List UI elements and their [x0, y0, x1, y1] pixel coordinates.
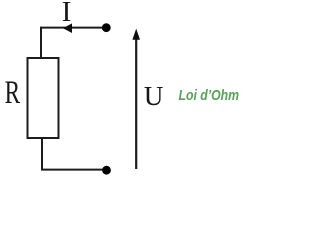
svg-text:U: U	[144, 81, 164, 111]
resistor R	[28, 58, 59, 138]
svg-text:Loi d’Ohm: Loi d’Ohm	[179, 88, 240, 104]
node bottom dot	[102, 166, 111, 175]
wire bottom vertical from resistor	[41, 138, 43, 170]
wire bottom horizontal	[41, 169, 103, 171]
node top dot	[102, 23, 111, 32]
svg-text:R: R	[5, 75, 21, 111]
voltage arrowhead	[132, 29, 140, 40]
wire top horizontal	[41, 27, 103, 29]
svg-text:I: I	[62, 0, 72, 28]
voltage arrow U shaft	[135, 38, 137, 169]
wire vertical left	[40, 27, 42, 59]
current arrowhead on top wire	[63, 23, 72, 33]
